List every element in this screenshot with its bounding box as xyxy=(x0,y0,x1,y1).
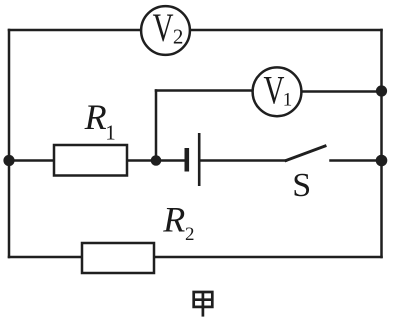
svg-text:2: 2 xyxy=(173,25,184,49)
svg-text:S: S xyxy=(292,167,311,204)
svg-text:V: V xyxy=(153,5,174,50)
svg-text:R: R xyxy=(84,97,107,137)
svg-text:1: 1 xyxy=(283,89,293,110)
svg-text:V: V xyxy=(264,68,285,113)
svg-text:2: 2 xyxy=(185,224,195,245)
svg-text:R: R xyxy=(162,200,185,240)
svg-text:1: 1 xyxy=(105,120,116,144)
